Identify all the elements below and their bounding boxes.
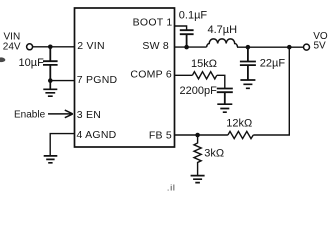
wire COMP to R1 <box>175 74 193 76</box>
svg-text:2 VIN: 2 VIN <box>77 40 105 52</box>
resistor R2 12k <box>228 131 253 138</box>
edge smudge artifact <box>0 57 5 62</box>
svg-text:4.7µH: 4.7µH <box>208 24 238 36</box>
svg-text:3 EN: 3 EN <box>77 109 101 121</box>
svg-text:0.1µF: 0.1µF <box>179 9 208 21</box>
svg-text:10µF: 10µF <box>19 57 45 69</box>
ground R3 <box>191 176 205 183</box>
svg-text:2200pF: 2200pF <box>180 85 218 97</box>
wire BOOT to C2 <box>175 26 187 30</box>
wire FB to R2 <box>175 134 228 136</box>
wire R1 to C4 <box>217 75 225 88</box>
ground AGND <box>44 156 58 163</box>
svg-text:22µF: 22µF <box>260 58 286 70</box>
wire AGND to ground <box>50 134 74 156</box>
wire SW to inductor <box>175 46 207 48</box>
svg-text:24V: 24V <box>3 41 21 52</box>
svg-text:3kΩ: 3kΩ <box>204 148 224 160</box>
capacitor C2 0.1uF <box>180 30 194 47</box>
resistor R1 15k <box>192 72 216 79</box>
inductor L1 4.7uH <box>207 39 238 47</box>
capacitor C4 2200pF <box>217 89 233 104</box>
wire Enable arrow to pin 3 <box>48 110 73 118</box>
node SW junction <box>184 45 189 50</box>
node FB junction <box>195 133 200 138</box>
svg-text:12kΩ: 12kΩ <box>226 117 252 129</box>
svg-text:15kΩ: 15kΩ <box>191 58 217 70</box>
terminal VIN <box>27 44 33 50</box>
svg-text:Enable: Enable <box>14 110 46 121</box>
ground C3 <box>240 80 255 88</box>
svg-text:COMP 6: COMP 6 <box>130 69 172 81</box>
svg-text:BOOT 1: BOOT 1 <box>133 17 173 29</box>
node PGND junction <box>48 78 53 83</box>
resistor R3 3k <box>194 135 201 175</box>
wire inductor to VO terminal <box>237 46 303 48</box>
ground C4 <box>217 104 232 112</box>
svg-text:4 AGND: 4 AGND <box>77 129 117 141</box>
svg-text:5V: 5V <box>314 41 327 52</box>
wire PGND to pin 7 <box>50 80 74 82</box>
svg-text:7 PGND: 7 PGND <box>77 74 118 86</box>
capacitor C3 22uF <box>240 47 256 80</box>
svg-text:.il: .il <box>167 184 176 193</box>
svg-text:SW 8: SW 8 <box>142 40 169 52</box>
node output junction 1 <box>246 45 251 50</box>
wire VIN to pin 2 <box>33 46 75 48</box>
terminal VO <box>304 44 310 50</box>
IC U1 <box>75 8 175 147</box>
node output junction 2 <box>287 45 292 50</box>
wire R2 to output branch <box>253 47 289 135</box>
node VIN junction <box>48 45 53 50</box>
ground input <box>43 81 57 97</box>
capacitor C1 10uF <box>43 47 58 81</box>
svg-text:FB 5: FB 5 <box>149 129 172 141</box>
